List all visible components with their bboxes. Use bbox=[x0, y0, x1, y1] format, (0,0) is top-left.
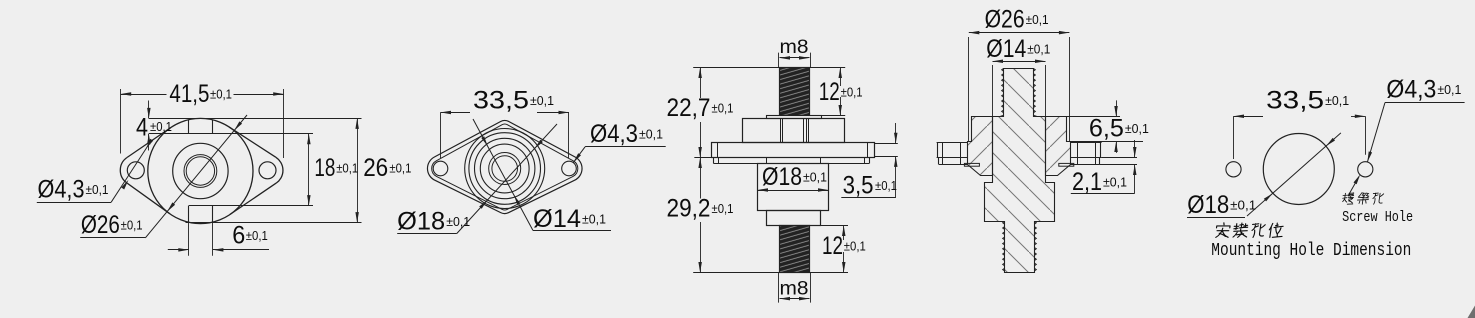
svg-text:Ø18: Ø18 bbox=[1187, 191, 1229, 219]
leader Ø14 view2 bbox=[473, 119, 611, 233]
dim m8 view3 top stud bbox=[779, 37, 811, 68]
svg-text:±0,1: ±0,1 bbox=[246, 229, 268, 243]
dim 6 view1 notch width bbox=[168, 222, 269, 252]
view2 thread bore minor circle bbox=[492, 156, 518, 182]
leader Ø18 view5 center hole bbox=[1187, 133, 1341, 219]
svg-text:±0,1: ±0,1 bbox=[803, 171, 827, 185]
svg-text:±0,1: ±0,1 bbox=[1437, 83, 1461, 97]
svg-text:12: 12 bbox=[819, 78, 840, 106]
svg-text:±0,1: ±0,1 bbox=[1325, 94, 1349, 108]
dim 33,5 view5 hole spacing bbox=[1234, 87, 1366, 160]
svg-text:±0,1: ±0,1 bbox=[1027, 42, 1050, 56]
dim 29,2 view3 bbox=[667, 158, 734, 273]
dim 3,5 view3 flange thickness bbox=[841, 123, 898, 200]
svg-text:Ø14: Ø14 bbox=[533, 205, 581, 233]
svg-text:±0,1: ±0,1 bbox=[150, 120, 172, 134]
leader Ø4,3 view2 ear hole bbox=[573, 120, 665, 163]
view1 thread bore minor circle bbox=[186, 157, 214, 185]
dim 26 view1 flange diameter height bbox=[355, 118, 411, 222]
view1 top notch bbox=[189, 120, 213, 134]
corner mark bottom right bbox=[1468, 306, 1475, 318]
dim m8 view3 bottom stud bbox=[779, 273, 811, 303]
svg-text:±0,1: ±0,1 bbox=[1230, 199, 1256, 213]
view2 right ear hole Ø4,3 bbox=[562, 161, 577, 176]
svg-text:±0,1: ±0,1 bbox=[86, 183, 109, 197]
svg-text:Ø4,3: Ø4,3 bbox=[590, 120, 638, 148]
view5 center hole Ø18 bbox=[1263, 134, 1334, 205]
dim 12 view3 bottom stud length bbox=[822, 226, 866, 273]
view3 boss Ø18 bbox=[758, 164, 829, 211]
svg-text:Ø26: Ø26 bbox=[81, 211, 120, 239]
view3 neck strip under flange bbox=[714, 158, 870, 164]
svg-text:18: 18 bbox=[314, 154, 335, 182]
view1 top notch chord line bbox=[149, 133, 313, 135]
svg-text:±0,1: ±0,1 bbox=[582, 213, 606, 227]
view2 flange inner chamfer outline bbox=[432, 124, 578, 210]
view4 top stud thread edges bbox=[1002, 69, 1036, 117]
view2 ring Ø18 bbox=[469, 133, 541, 205]
dim 12 view3 top stud length bbox=[819, 68, 863, 116]
view3 stud bottom ext line bbox=[693, 272, 848, 274]
leader Ø4,3 view1 ear hole bbox=[37, 139, 153, 204]
view1 thread bore major circle bbox=[184, 155, 217, 188]
svg-text:6: 6 bbox=[232, 222, 245, 250]
view2 flange outline bbox=[427, 121, 582, 214]
dim 2,1 view4 bbox=[1071, 140, 1137, 196]
view3 hex block bore lines bbox=[781, 119, 809, 143]
leader Ø18 view2 bbox=[397, 124, 557, 236]
text Mounting Hole Dimension view5 bbox=[1211, 241, 1411, 261]
svg-text:±0,1: ±0,1 bbox=[446, 215, 470, 229]
svg-text:Ø14: Ø14 bbox=[986, 35, 1026, 63]
svg-text:6,5: 6,5 bbox=[1089, 115, 1124, 143]
svg-text:±0,1: ±0,1 bbox=[712, 102, 734, 116]
view2 ring r40 bbox=[465, 129, 545, 209]
svg-text:±0,1: ±0,1 bbox=[336, 162, 358, 176]
view4 right ear section bbox=[1059, 143, 1102, 167]
svg-text:Ø18: Ø18 bbox=[397, 208, 445, 236]
dim 18 view1 notch span bbox=[307, 134, 358, 206]
svg-text:±0,1: ±0,1 bbox=[210, 88, 232, 102]
view4 flange rim steps bbox=[968, 142, 1071, 143]
svg-text:±0,1: ±0,1 bbox=[1103, 176, 1127, 190]
dim 6,5 view4 bbox=[1067, 100, 1149, 152]
view3 flange ear step lines bbox=[718, 143, 868, 158]
svg-text:±0,1: ±0,1 bbox=[121, 219, 143, 233]
view4 flange body outline bbox=[968, 117, 1071, 176]
view1 bottom notch extension lines bbox=[189, 222, 213, 256]
leader Ø4,3 view5 screw hole bbox=[1367, 76, 1464, 162]
text Screw Hole view5 bbox=[1342, 209, 1413, 226]
view3 strip top ext line bbox=[822, 115, 846, 117]
svg-text:±0,1: ±0,1 bbox=[844, 240, 866, 254]
view4 left ear section bbox=[937, 143, 980, 167]
svg-text:±0,1: ±0,1 bbox=[1026, 13, 1049, 27]
svg-text:Ø26: Ø26 bbox=[985, 6, 1025, 34]
svg-text:26: 26 bbox=[363, 154, 388, 182]
view3 lower neck ext line bbox=[821, 225, 849, 227]
svg-text:m8: m8 bbox=[780, 279, 809, 300]
dim 33,5 view2 hole spacing bbox=[441, 87, 570, 159]
view3 flange plate bbox=[712, 143, 875, 158]
svg-text:33,5: 33,5 bbox=[1266, 87, 1324, 115]
svg-text:4: 4 bbox=[136, 113, 148, 141]
view5 left screw hole bbox=[1226, 162, 1241, 177]
view3 lower neck block bbox=[767, 211, 821, 226]
dim Ø26 view4 bbox=[969, 6, 1070, 142]
text 安装孔位 view5 bbox=[1215, 223, 1284, 238]
view1 boss circle Ø14 bbox=[173, 143, 228, 198]
view1 right mounting ear bbox=[229, 127, 283, 215]
dim 22,7 view3 bbox=[667, 68, 734, 158]
view3 bottom stud m8 threaded bbox=[780, 226, 810, 273]
svg-text:22,7: 22,7 bbox=[667, 94, 711, 122]
svg-text:Ø18: Ø18 bbox=[762, 163, 802, 191]
svg-text:±0,1: ±0,1 bbox=[712, 202, 734, 216]
view1 bottom notch bbox=[189, 206, 213, 223]
view4 insert section hatching bbox=[985, 69, 1055, 273]
leader Ø26 view1 flange circle bbox=[80, 115, 247, 239]
view1 bottom notch chord ext line bbox=[189, 205, 313, 207]
svg-text:±0,1: ±0,1 bbox=[530, 94, 554, 108]
svg-text:Ø4,3: Ø4,3 bbox=[38, 176, 85, 204]
svg-text:±0,1: ±0,1 bbox=[875, 179, 897, 193]
svg-text:±0,1: ±0,1 bbox=[639, 128, 663, 142]
svg-text:41,5: 41,5 bbox=[169, 80, 209, 108]
view3 stud top ext line bbox=[693, 67, 845, 69]
view1 top tangent line bbox=[149, 118, 362, 120]
view3 top stud m8 threaded bbox=[780, 68, 810, 116]
view2 ring r31 bbox=[475, 138, 535, 198]
view1 left ear hole Ø4,3 bbox=[127, 162, 144, 179]
svg-text:±0,1: ±0,1 bbox=[841, 86, 863, 100]
view1 right ear hole Ø4,3 bbox=[259, 162, 276, 179]
svg-text:Screw Hole: Screw Hole bbox=[1342, 209, 1413, 226]
svg-text:3,5: 3,5 bbox=[843, 172, 874, 200]
view1 left mounting ear bbox=[120, 128, 170, 214]
dim Ø18 view3 boss bbox=[758, 163, 829, 192]
dim 4 view1 notch depth bbox=[136, 101, 172, 151]
view3 thread runout strip bbox=[767, 116, 822, 119]
svg-text:Ø4,3: Ø4,3 bbox=[1386, 76, 1436, 104]
view1 bottom tangent line bbox=[186, 222, 362, 224]
svg-text:33,5: 33,5 bbox=[473, 87, 529, 115]
text 螺丝孔 view5 bbox=[1342, 193, 1384, 204]
view2 ring Ø14 bbox=[480, 144, 529, 193]
svg-text:±0,1: ±0,1 bbox=[389, 162, 411, 176]
view3 hex block bbox=[743, 119, 845, 143]
svg-text:m8: m8 bbox=[780, 37, 809, 58]
view2 thread bore major circle bbox=[489, 153, 521, 185]
view1 flange outer circle Ø26 bbox=[148, 118, 253, 223]
svg-text:2,1: 2,1 bbox=[1072, 168, 1102, 196]
view4 insert section outline bbox=[985, 69, 1055, 273]
leader arrow to screw hole view5 bbox=[1348, 174, 1360, 196]
svg-text:29,2: 29,2 bbox=[667, 195, 711, 223]
dim 41,5 view1 overall width bbox=[121, 80, 284, 158]
view4 flange body hatching bbox=[968, 117, 1071, 176]
svg-text:Mounting Hole Dimension: Mounting Hole Dimension bbox=[1211, 241, 1411, 261]
svg-text:±0,1: ±0,1 bbox=[1125, 122, 1149, 136]
svg-text:12: 12 bbox=[822, 232, 843, 260]
view2 left ear hole Ø4,3 bbox=[433, 161, 448, 176]
dim Ø14 view4 bbox=[986, 35, 1050, 117]
view3 flange bottom ext line bbox=[694, 157, 711, 159]
view4 bottom stud thread edges bbox=[1003, 222, 1037, 273]
view5 right screw hole bbox=[1358, 162, 1373, 177]
